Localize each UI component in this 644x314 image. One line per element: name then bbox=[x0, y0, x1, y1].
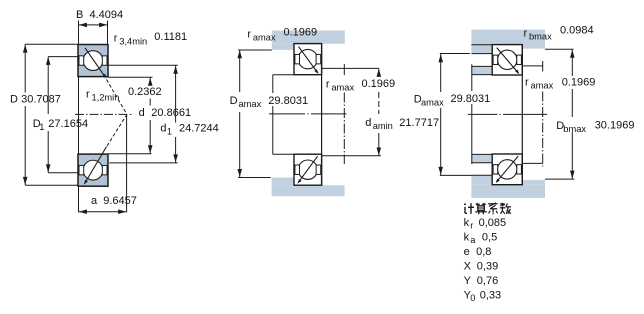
shaft shoulder bottom (right) bbox=[471, 154, 491, 163]
svg-text:21.7717: 21.7717 bbox=[399, 117, 439, 129]
housing shoulder bottom (right) bbox=[471, 175, 491, 185]
svg-text:D: D bbox=[10, 93, 18, 105]
bearing top (middle drawing) bbox=[294, 44, 322, 75]
housing section top (right) bbox=[471, 30, 545, 45]
svg-text:27.1654: 27.1654 bbox=[48, 118, 88, 130]
housing section bottom (middle) bbox=[272, 185, 345, 196]
dimension D extension bottom bbox=[25, 184, 78, 186]
inner ring reference line top (right) bbox=[522, 65, 543, 67]
svg-text:d: d bbox=[139, 107, 145, 119]
wire a-dim left extension bbox=[78, 77, 80, 212]
svg-text:r: r bbox=[470, 220, 473, 230]
svg-text:24.7244: 24.7244 bbox=[179, 123, 219, 135]
svg-text:r: r bbox=[114, 32, 118, 44]
svg-text:r: r bbox=[525, 77, 529, 89]
svg-text:amax: amax bbox=[253, 33, 276, 43]
svg-text:1: 1 bbox=[167, 127, 172, 137]
svg-text:B 4.4094: B 4.4094 bbox=[76, 9, 123, 21]
dimension D extension top bbox=[25, 43, 78, 45]
shaft end line (right) bbox=[471, 64, 473, 91]
dimension d1 line bbox=[175, 65, 177, 122]
svg-text:0,39: 0,39 bbox=[477, 260, 498, 272]
shaft right end (middle) bbox=[321, 44, 323, 186]
svg-text:amax: amax bbox=[331, 83, 354, 93]
housing ledge right of bearing (right bottom) bbox=[522, 180, 545, 185]
dimension d extension bottom bbox=[108, 153, 152, 155]
svg-text:amax: amax bbox=[239, 99, 262, 109]
bearing top (right drawing) bbox=[492, 45, 522, 75]
dimension D1 extension top bbox=[48, 56, 78, 58]
contact angle dashed line bottom bbox=[107, 115, 127, 146]
svg-text:0,8: 0,8 bbox=[476, 246, 491, 258]
shaft bottom line (right) bbox=[472, 153, 492, 155]
housing ledge right of bearing (right top) bbox=[522, 45, 545, 49]
svg-text:0,5: 0,5 bbox=[482, 231, 497, 243]
dimension B extension lines bbox=[78, 21, 80, 45]
dimension d extension top bbox=[108, 76, 153, 78]
dimension Damax line (middle) bbox=[239, 50, 241, 92]
svg-text:29.8031: 29.8031 bbox=[451, 93, 491, 105]
housing shoulder top block bottom edge (right) bbox=[471, 53, 491, 55]
axis centerline middle drawing bbox=[269, 113, 305, 115]
dimension Dbmax extension top bbox=[545, 48, 574, 50]
dimension D1 extension bottom bbox=[48, 172, 78, 174]
svg-text:1: 1 bbox=[39, 122, 44, 132]
svg-text:30.1969: 30.1969 bbox=[595, 119, 635, 131]
dimension d line bbox=[149, 77, 151, 85]
housing section top (middle) bbox=[272, 31, 345, 44]
inner ring reference line bottom (right) bbox=[522, 162, 543, 164]
housing seat line (right) bbox=[471, 44, 491, 46]
svg-text:Y: Y bbox=[464, 275, 472, 287]
housing shoulder bottom block top edge (right) bbox=[471, 174, 491, 176]
svg-text:29.8031: 29.8031 bbox=[268, 95, 308, 107]
dimension Damax extension bottom (middle) bbox=[238, 177, 271, 179]
shaft top line (right) bbox=[472, 74, 492, 76]
svg-text:20.8661: 20.8661 bbox=[151, 107, 191, 119]
dimension damin extension bottom (middle) bbox=[322, 155, 381, 157]
shaft shoulder bottom edge line (right) bbox=[471, 162, 491, 164]
shaft shoulder top (right) bbox=[471, 66, 491, 75]
svg-text:0,76: 0,76 bbox=[477, 275, 498, 287]
svg-text:30.7087: 30.7087 bbox=[21, 93, 61, 105]
svg-text:k: k bbox=[464, 217, 470, 229]
svg-text:d: d bbox=[160, 123, 166, 135]
svg-text:r: r bbox=[247, 29, 251, 41]
svg-text:0.1181: 0.1181 bbox=[154, 31, 187, 43]
contact angle dashed line top bbox=[107, 80, 127, 115]
svg-text:amax: amax bbox=[531, 81, 554, 91]
dimension Damax extension bottom (right) bbox=[440, 174, 472, 176]
svg-text:0.0984: 0.0984 bbox=[560, 25, 594, 37]
svg-text:amax: amax bbox=[421, 98, 444, 108]
axis centerline right drawing bbox=[468, 113, 498, 115]
dimension Damax line (right) bbox=[440, 54, 442, 92]
bearing bottom (right drawing) bbox=[492, 154, 522, 185]
svg-text:a 9.6457: a 9.6457 bbox=[91, 195, 137, 207]
dimension Dbmax line bbox=[571, 49, 573, 76]
svg-text:bmax: bmax bbox=[563, 124, 586, 134]
dimension Dbmax extension bottom bbox=[545, 178, 574, 180]
housing section bottom (right) bbox=[471, 185, 545, 198]
svg-text:r: r bbox=[524, 28, 528, 40]
svg-text:X: X bbox=[464, 260, 472, 272]
housing shoulder bottom (middle) bbox=[272, 178, 294, 186]
dimension D1 line bbox=[47, 57, 49, 114]
axis centerline left drawing bbox=[75, 113, 127, 115]
svg-text:0.1969: 0.1969 bbox=[284, 27, 318, 39]
dimension D line bbox=[24, 44, 26, 92]
shaft shoulder top edge line (right) bbox=[471, 65, 491, 67]
svg-text:a: a bbox=[470, 235, 476, 245]
svg-text:amin: amin bbox=[373, 121, 393, 131]
svg-text:d: d bbox=[365, 117, 371, 129]
svg-text:0.1969: 0.1969 bbox=[562, 77, 596, 89]
svg-text:1,2min: 1,2min bbox=[92, 93, 120, 103]
dimension Damax extension top (middle) bbox=[238, 49, 272, 51]
dimension Damax extension top (right) bbox=[440, 53, 470, 55]
svg-text:0.2362: 0.2362 bbox=[128, 86, 162, 98]
svg-text:D: D bbox=[230, 95, 238, 107]
shaft end line (middle) bbox=[272, 75, 274, 93]
dimension d1 extension bottom bbox=[109, 162, 178, 164]
svg-text:r: r bbox=[86, 89, 90, 101]
shaft bottom line (middle) bbox=[273, 153, 294, 155]
bearing cross-section bottom (left drawing) bbox=[78, 154, 108, 186]
shaft right end (right) bbox=[521, 45, 523, 185]
dimension d1 extension top bbox=[108, 64, 178, 66]
housing shoulder top (right) bbox=[471, 45, 491, 54]
dimension damin line (middle) bbox=[378, 68, 380, 77]
svg-text:0,085: 0,085 bbox=[479, 217, 507, 229]
housing shoulder top (middle) bbox=[272, 44, 294, 50]
section break dash-dot line (right) bbox=[542, 61, 544, 71]
wire a-dim right extension bbox=[126, 114, 128, 212]
svg-text:r: r bbox=[326, 79, 330, 91]
shaft top line (middle) bbox=[273, 74, 294, 76]
table header (Chinese: calculation factors) hand-drawn strokes bbox=[464, 203, 466, 205]
svg-text:k: k bbox=[464, 231, 470, 243]
svg-text:bmax: bmax bbox=[529, 32, 552, 42]
svg-text:0,33: 0,33 bbox=[480, 290, 501, 302]
svg-text:3,4min: 3,4min bbox=[119, 36, 147, 46]
bearing bottom (middle drawing) bbox=[294, 154, 322, 185]
bearing cross-section top (left drawing) bbox=[78, 45, 108, 77]
svg-text:e: e bbox=[464, 246, 470, 258]
dimension a line bbox=[79, 211, 127, 213]
dimension B line bbox=[79, 24, 108, 26]
svg-text:0.1969: 0.1969 bbox=[362, 78, 396, 90]
svg-text:0: 0 bbox=[470, 293, 475, 303]
section break dash-dot line (middle) bbox=[343, 64, 345, 75]
dimension damin extension top (middle) bbox=[322, 67, 379, 69]
